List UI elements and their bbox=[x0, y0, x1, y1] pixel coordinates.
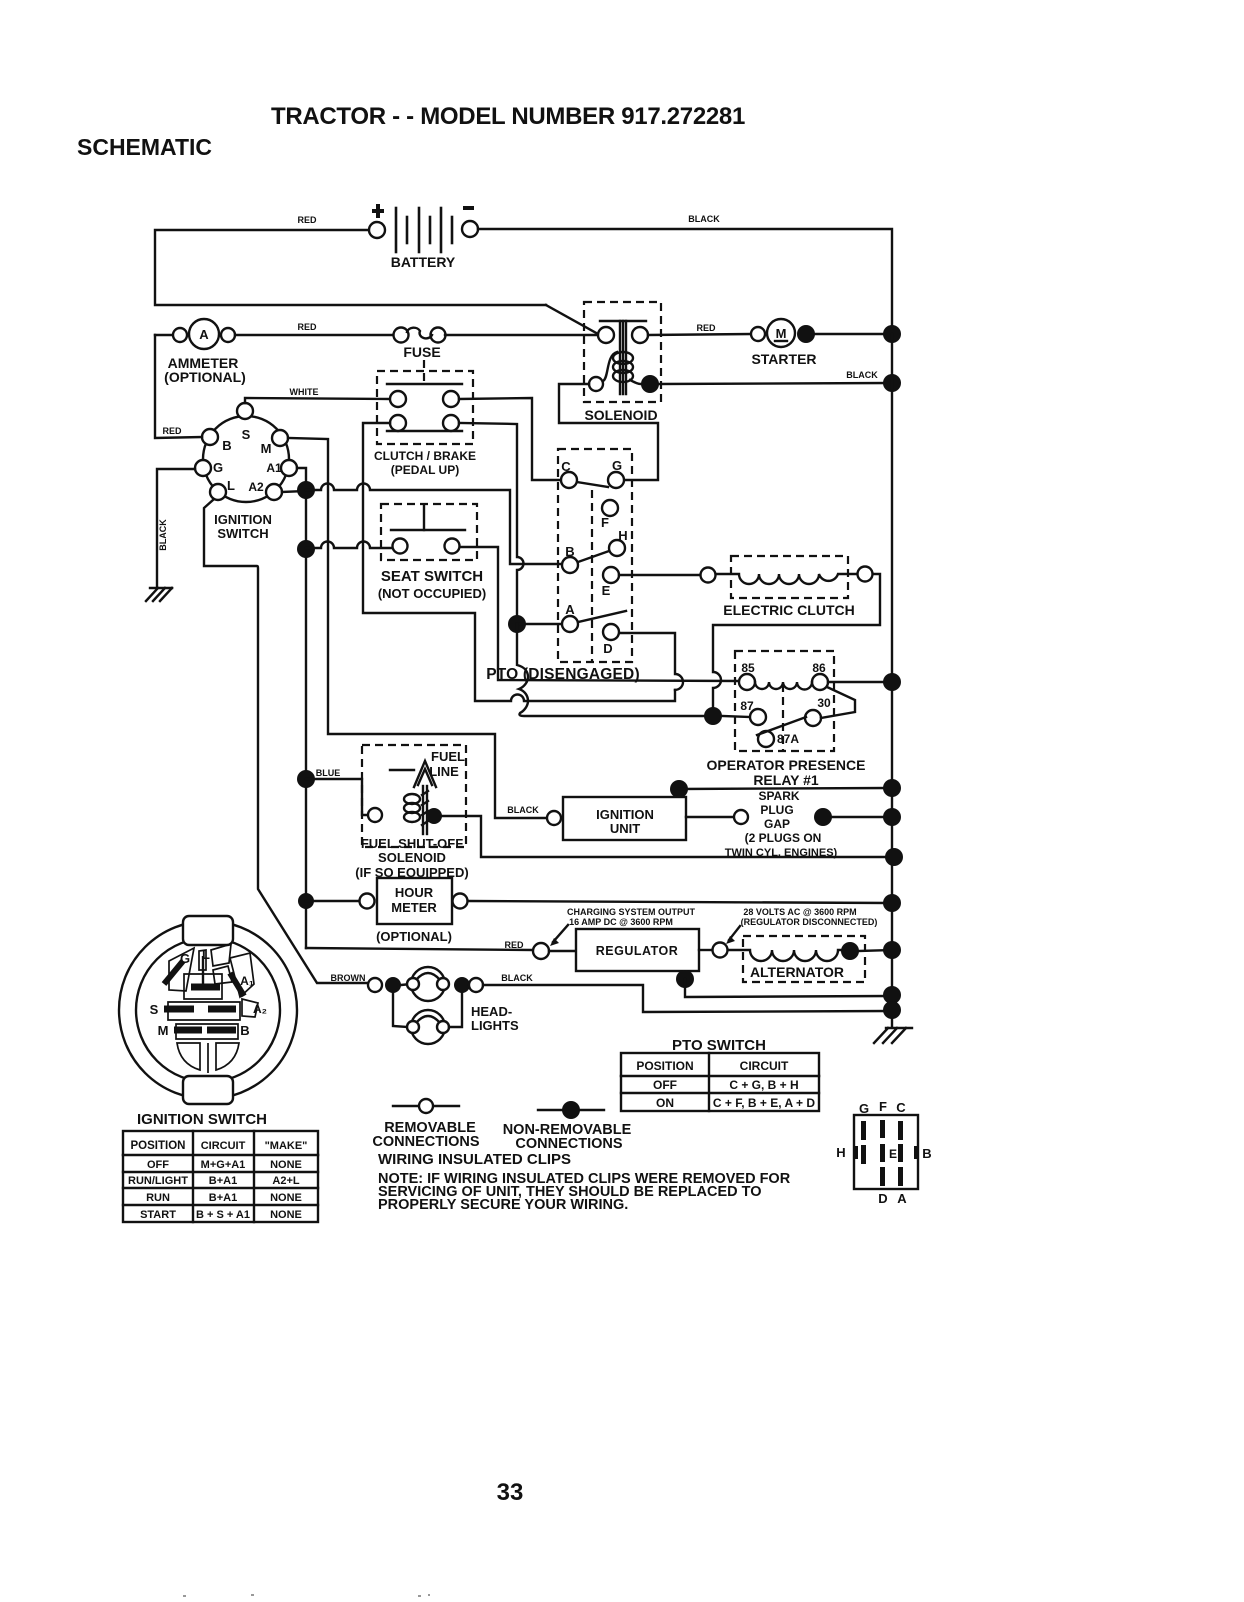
svg-text:B+A1: B+A1 bbox=[209, 1175, 237, 1187]
headlight lamp 1 bbox=[407, 967, 449, 1001]
svg-text:CIRCUIT: CIRCUIT bbox=[740, 1059, 789, 1073]
svg-text:SOLENOID: SOLENOID bbox=[584, 407, 657, 423]
svg-text:METER: METER bbox=[391, 900, 437, 915]
wire solenoid coil to PTO G bbox=[559, 384, 658, 480]
connector slot A2 bbox=[208, 1006, 236, 1013]
svg-text:TWIN CYL. ENGINES): TWIN CYL. ENGINES) bbox=[725, 847, 838, 859]
junction hour meter feed bbox=[298, 893, 314, 909]
svg-text:A: A bbox=[897, 1191, 907, 1206]
svg-text:SOLENOID: SOLENOID bbox=[378, 850, 446, 865]
ignition switch table bbox=[123, 1131, 318, 1222]
PTO blade A bbox=[578, 611, 626, 622]
junction right rail black bbox=[883, 374, 901, 392]
wire junction to seat switch bbox=[306, 542, 392, 549]
svg-text:HOUR: HOUR bbox=[395, 885, 434, 900]
svg-text:BROWN: BROWN bbox=[331, 973, 366, 983]
svg-text:NONE: NONE bbox=[270, 1209, 302, 1221]
svg-text:(2 PLUGS ON: (2 PLUGS ON bbox=[745, 831, 822, 845]
fuel shut-off solenoid bbox=[362, 745, 466, 847]
svg-text:33: 33 bbox=[497, 1479, 524, 1506]
PTO switch table bbox=[621, 1053, 819, 1111]
starter M1 bbox=[751, 319, 815, 347]
svg-text:A: A bbox=[565, 602, 575, 617]
svg-text:E: E bbox=[889, 1147, 897, 1161]
svg-text:C + F, B + E, A + D: C + F, B + E, A + D bbox=[713, 1096, 815, 1110]
wire A2 to junction bbox=[282, 491, 306, 492]
svg-text:B+A1: B+A1 bbox=[209, 1192, 237, 1204]
ignition switch terminal A2 bbox=[266, 484, 282, 500]
spark gap electrode bbox=[734, 810, 748, 824]
wire L lights feed bbox=[204, 500, 368, 983]
svg-text:BATTERY: BATTERY bbox=[391, 254, 456, 270]
svg-text:CIRCUIT: CIRCUIT bbox=[201, 1140, 246, 1152]
svg-text:A: A bbox=[199, 327, 209, 342]
svg-text:SCHEMATIC: SCHEMATIC bbox=[77, 134, 212, 160]
svg-text:PTO (DISENGAGED): PTO (DISENGAGED) bbox=[486, 666, 640, 683]
svg-text:(PEDAL UP): (PEDAL UP) bbox=[391, 463, 459, 477]
svg-text:RED: RED bbox=[504, 940, 524, 950]
wire right rail bbox=[891, 334, 893, 1027]
svg-text:PROPERLY SECURE YOUR WIRING.: PROPERLY SECURE YOUR WIRING. bbox=[378, 1197, 628, 1213]
svg-text:C: C bbox=[561, 459, 571, 474]
svg-text:BLACK: BLACK bbox=[507, 805, 539, 815]
ignition switch terminal L bbox=[210, 484, 226, 500]
wire hour meter to rail bbox=[468, 901, 892, 903]
electric clutch bbox=[701, 556, 873, 598]
junction A1 A2 bbox=[297, 481, 315, 499]
svg-text:M: M bbox=[158, 1023, 169, 1038]
regulator bbox=[533, 929, 699, 971]
wire ignition unit top to rail bbox=[679, 788, 892, 789]
wire M down and to ignition unit bbox=[288, 438, 547, 818]
wire regulator feed bbox=[306, 948, 533, 950]
junction right rail alternator bbox=[883, 941, 901, 959]
wire blue to fuel solenoid bbox=[306, 779, 368, 815]
PTO blade C G bbox=[577, 482, 608, 487]
svg-text:D: D bbox=[878, 1191, 887, 1206]
ignition switch ring bbox=[203, 416, 289, 502]
ignition switch terminal B bbox=[202, 429, 218, 445]
connector cutout outlines bbox=[168, 944, 258, 1073]
svg-text:BLACK: BLACK bbox=[501, 973, 533, 983]
svg-text:C: C bbox=[896, 1100, 906, 1115]
alternator bbox=[713, 936, 893, 982]
svg-text:RUN/LIGHT: RUN/LIGHT bbox=[128, 1175, 188, 1187]
headlight connector closed bbox=[385, 977, 401, 993]
svg-text:REGULATOR: REGULATOR bbox=[596, 944, 679, 958]
arrow alternator annotation bbox=[729, 926, 740, 940]
wire headlights return bbox=[483, 985, 892, 1012]
svg-text:FUSE: FUSE bbox=[403, 344, 440, 360]
svg-text:M+G+A1: M+G+A1 bbox=[201, 1159, 246, 1171]
svg-text:F: F bbox=[879, 1099, 887, 1114]
spark gap plug bbox=[814, 808, 832, 826]
relay box bbox=[735, 651, 834, 751]
wire clutch bottom left around seat label to D bbox=[363, 423, 675, 701]
svg-text:E: E bbox=[602, 583, 611, 598]
ignition switch terminal M bbox=[272, 430, 288, 446]
svg-text:TRACTOR - - MODEL NUMBER 917.2: TRACTOR - - MODEL NUMBER 917.272281 bbox=[271, 103, 745, 130]
svg-text:RUN: RUN bbox=[146, 1192, 170, 1204]
relay terminal 86 bbox=[812, 674, 828, 690]
wire battery negative black bbox=[478, 229, 892, 334]
svg-text:A2: A2 bbox=[248, 480, 264, 494]
svg-text:B: B bbox=[222, 438, 231, 453]
svg-text:A₂: A₂ bbox=[253, 1002, 267, 1016]
wire hour meter left bbox=[306, 900, 359, 902]
wire S to white bbox=[245, 398, 390, 403]
PTO blade B H bbox=[578, 551, 609, 562]
svg-text:RED: RED bbox=[297, 215, 317, 225]
junction right rail regulator ground bbox=[883, 986, 901, 1004]
seat switch bbox=[381, 504, 477, 560]
ignition switch terminal G bbox=[195, 460, 211, 476]
svg-text:(NOT OCCUPIED): (NOT OCCUPIED) bbox=[378, 586, 486, 601]
junction seat feed bbox=[297, 540, 315, 558]
svg-text:G: G bbox=[180, 951, 190, 966]
wire A1 to junction bbox=[297, 468, 306, 948]
PTO terminal B bbox=[562, 557, 578, 573]
svg-text:S: S bbox=[242, 427, 251, 442]
svg-text:D: D bbox=[603, 641, 612, 656]
svg-text:B + S + A1: B + S + A1 bbox=[196, 1209, 250, 1221]
PTO terminal G bbox=[608, 472, 624, 488]
svg-text:G: G bbox=[612, 458, 622, 473]
svg-text:PLUG: PLUG bbox=[760, 803, 793, 817]
wire solenoid to right rail black bbox=[659, 383, 892, 384]
wire 86 to right rail bbox=[828, 681, 892, 683]
wire junction to A bbox=[517, 623, 562, 625]
connector slot S bbox=[164, 1006, 194, 1013]
PTO terminal E bbox=[603, 567, 619, 583]
connector slot G bbox=[164, 961, 183, 984]
svg-text:ON: ON bbox=[656, 1096, 674, 1110]
svg-text:B: B bbox=[565, 544, 574, 559]
junction right rail spark return bbox=[885, 848, 903, 866]
svg-text:M: M bbox=[776, 326, 787, 341]
wire G to ground black bbox=[157, 469, 195, 587]
svg-text:"MAKE": "MAKE" bbox=[265, 1140, 308, 1152]
svg-text:B: B bbox=[922, 1146, 931, 1161]
wire junction to 87 bbox=[722, 716, 750, 717]
svg-text:85: 85 bbox=[741, 661, 755, 675]
junction right rail spark top bbox=[883, 779, 901, 797]
svg-text:HEAD-: HEAD- bbox=[471, 1004, 512, 1019]
svg-text:87: 87 bbox=[740, 699, 754, 713]
svg-text:BLACK: BLACK bbox=[688, 214, 720, 224]
wire diagonal to solenoid bbox=[546, 305, 598, 334]
svg-text:S: S bbox=[150, 1002, 159, 1017]
wire starter to right rail bbox=[815, 333, 892, 335]
wire spark plug to rail bbox=[832, 816, 892, 818]
svg-text:IGNITION: IGNITION bbox=[596, 807, 654, 822]
clutch brake switch bbox=[377, 360, 473, 444]
svg-text:(OPTIONAL): (OPTIONAL) bbox=[376, 929, 452, 944]
wire D vertical hump bbox=[619, 633, 683, 690]
relay terminal 85 bbox=[739, 674, 755, 690]
svg-text:RED: RED bbox=[297, 322, 317, 332]
PTO switch box bbox=[558, 449, 632, 662]
PTO terminal H bbox=[609, 540, 625, 556]
relay coil bbox=[755, 682, 812, 690]
junction right rail hour meter bbox=[883, 894, 901, 912]
svg-text:A₁: A₁ bbox=[240, 974, 254, 988]
svg-text:H: H bbox=[836, 1145, 845, 1160]
svg-text:OFF: OFF bbox=[147, 1159, 169, 1171]
svg-text:B: B bbox=[240, 1023, 249, 1038]
arrow charging annotation bbox=[553, 925, 568, 942]
svg-text:C + G, B + H: C + G, B + H bbox=[729, 1078, 798, 1092]
svg-text:30: 30 bbox=[817, 696, 831, 710]
ignition switch terminal S bbox=[237, 403, 253, 419]
ground left bbox=[146, 588, 172, 601]
svg-text:POSITION: POSITION bbox=[636, 1059, 693, 1073]
relay blade 87A to 30 bbox=[757, 717, 806, 735]
solenoid bbox=[584, 302, 661, 402]
svg-text:GAP: GAP bbox=[764, 817, 790, 831]
connector slot center bbox=[191, 984, 220, 991]
wire A junction to PTO B bbox=[306, 484, 562, 564]
svg-text:NONE: NONE bbox=[270, 1192, 302, 1204]
relay terminal 87 bbox=[750, 709, 766, 725]
relay link 86 to 30 bbox=[821, 687, 855, 718]
PTO terminal D bbox=[603, 624, 619, 640]
junction right rail relay bbox=[883, 673, 901, 691]
svg-text:OFF: OFF bbox=[653, 1078, 677, 1092]
svg-text:START: START bbox=[140, 1209, 176, 1221]
svg-text:CLUTCH / BRAKE: CLUTCH / BRAKE bbox=[374, 449, 476, 463]
wire clutch top right to PTO C bbox=[459, 398, 561, 480]
ignition unit bbox=[547, 797, 686, 840]
svg-text:CONNECTIONS: CONNECTIONS bbox=[515, 1136, 622, 1152]
svg-text:CONNECTIONS: CONNECTIONS bbox=[372, 1134, 479, 1150]
wire seat switch to relay 85 line bbox=[460, 547, 739, 681]
svg-text:IGNITION SWITCH: IGNITION SWITCH bbox=[137, 1111, 267, 1128]
svg-text:87A: 87A bbox=[777, 732, 799, 746]
relay terminal 87A bbox=[758, 731, 774, 747]
svg-text:SWITCH: SWITCH bbox=[217, 526, 268, 541]
svg-text:SPARK: SPARK bbox=[758, 789, 799, 803]
wire regulator ground bbox=[685, 979, 892, 997]
fuse F1 bbox=[394, 328, 446, 343]
svg-text:RELAY #1: RELAY #1 bbox=[753, 772, 819, 788]
svg-text:PTO SWITCH: PTO SWITCH bbox=[672, 1037, 766, 1054]
headlight connector right open bbox=[469, 978, 483, 992]
wire fuse to solenoid bbox=[445, 334, 598, 336]
ignition switch terminal A1 bbox=[281, 460, 297, 476]
wire clutch bottom right down bbox=[459, 423, 524, 624]
connector slot A1 bbox=[230, 973, 244, 996]
headlight connector open bbox=[368, 978, 382, 992]
svg-text:86: 86 bbox=[812, 661, 826, 675]
legend non-removable connection bbox=[538, 1101, 604, 1119]
connector slot M bbox=[174, 1027, 202, 1034]
svg-text:G: G bbox=[859, 1101, 869, 1116]
junction right rail starter bbox=[883, 325, 901, 343]
PTO terminal C bbox=[561, 472, 577, 488]
svg-text:IGNITION: IGNITION bbox=[214, 512, 272, 527]
PTO terminal A bbox=[562, 616, 578, 632]
svg-text:L: L bbox=[227, 478, 235, 493]
wire ammeter to fuse bbox=[235, 334, 394, 336]
svg-text:OPERATOR PRESENCE: OPERATOR PRESENCE bbox=[707, 757, 866, 773]
svg-text:FUEL: FUEL bbox=[431, 749, 465, 764]
svg-text:G: G bbox=[213, 460, 223, 475]
svg-text:F: F bbox=[601, 515, 609, 530]
scan artifact dots bbox=[183, 1594, 430, 1597]
wire ignition unit to spark gap bbox=[686, 816, 734, 818]
svg-text:ELECTRIC CLUTCH: ELECTRIC CLUTCH bbox=[723, 602, 854, 618]
svg-text:H: H bbox=[618, 528, 627, 543]
junction right rail headlights bbox=[883, 1001, 901, 1019]
svg-text:STARTER: STARTER bbox=[751, 351, 816, 367]
wire E to electric clutch bbox=[619, 574, 701, 576]
wire ammeter left corner bbox=[155, 334, 172, 336]
battery BAT1 bbox=[369, 204, 478, 252]
svg-text:BLACK: BLACK bbox=[158, 519, 168, 551]
wire regulator to alternator bbox=[699, 949, 712, 951]
svg-text:LINE: LINE bbox=[429, 764, 459, 779]
svg-text:BLUE: BLUE bbox=[316, 768, 341, 778]
svg-text:ALTERNATOR: ALTERNATOR bbox=[750, 964, 844, 980]
svg-text:28 VOLTS AC @ 3600 RPM: 28 VOLTS AC @ 3600 RPM bbox=[743, 907, 856, 917]
svg-text:LIGHTS: LIGHTS bbox=[471, 1018, 519, 1033]
svg-text:(OPTIONAL): (OPTIONAL) bbox=[164, 369, 246, 385]
svg-text:RED: RED bbox=[696, 323, 716, 333]
ground right rail bbox=[874, 1028, 912, 1043]
connector slot B bbox=[207, 1027, 236, 1034]
svg-text:M: M bbox=[261, 441, 272, 456]
svg-text:BLACK: BLACK bbox=[846, 370, 878, 380]
junction right rail spark plug bbox=[883, 808, 901, 826]
headlight junction right bbox=[454, 977, 470, 993]
svg-text:CHARGING SYSTEM OUTPUT: CHARGING SYSTEM OUTPUT bbox=[567, 907, 696, 917]
PTO terminal F bbox=[602, 500, 618, 516]
svg-text:A2+L: A2+L bbox=[272, 1175, 299, 1187]
hour meter bbox=[360, 878, 468, 924]
svg-text:POSITION: POSITION bbox=[131, 1140, 186, 1152]
relay terminal 30 bbox=[805, 710, 821, 726]
wire to lamp1 bbox=[401, 984, 411, 985]
svg-text:A1: A1 bbox=[266, 461, 282, 475]
wire B to left red bbox=[155, 335, 202, 438]
svg-text:UNIT: UNIT bbox=[610, 821, 640, 836]
regulator ground terminal bbox=[676, 970, 694, 988]
wire solenoid to starter red bbox=[648, 334, 751, 335]
junction PTO A feed bbox=[508, 615, 526, 633]
svg-text:FUEL SHUT-OFF: FUEL SHUT-OFF bbox=[361, 836, 463, 851]
svg-text:16 AMP DC @ 3600 RPM: 16 AMP DC @ 3600 RPM bbox=[569, 917, 673, 927]
svg-text:NONE: NONE bbox=[270, 1159, 302, 1171]
junction relay 87 wire bbox=[704, 707, 722, 725]
svg-text:WIRING INSULATED CLIPS: WIRING INSULATED CLIPS bbox=[378, 1151, 571, 1168]
wire electric clutch return bbox=[713, 574, 880, 707]
svg-text:WHITE: WHITE bbox=[290, 387, 319, 397]
ammeter A1 bbox=[173, 319, 235, 349]
PTO connector face bbox=[854, 1115, 918, 1189]
legend removable connection bbox=[393, 1099, 459, 1113]
ignition switch connector drawing bbox=[119, 916, 297, 1104]
wire fuel solenoid return bbox=[442, 816, 885, 857]
svg-text:RED: RED bbox=[162, 426, 182, 436]
svg-text:(REGULATOR DISCONNECTED): (REGULATOR DISCONNECTED) bbox=[741, 917, 878, 927]
wire battery positive to left rail bbox=[155, 230, 546, 305]
svg-text:SEAT SWITCH: SEAT SWITCH bbox=[381, 568, 483, 585]
connector slot L bbox=[202, 956, 204, 984]
wire blue junction bbox=[297, 770, 315, 788]
svg-text:L: L bbox=[202, 947, 210, 962]
wire A feed down to relay 87 with s-bulges bbox=[517, 624, 704, 716]
junction ignition unit top bbox=[670, 780, 688, 798]
headlight lamp 2 bbox=[393, 993, 462, 1044]
